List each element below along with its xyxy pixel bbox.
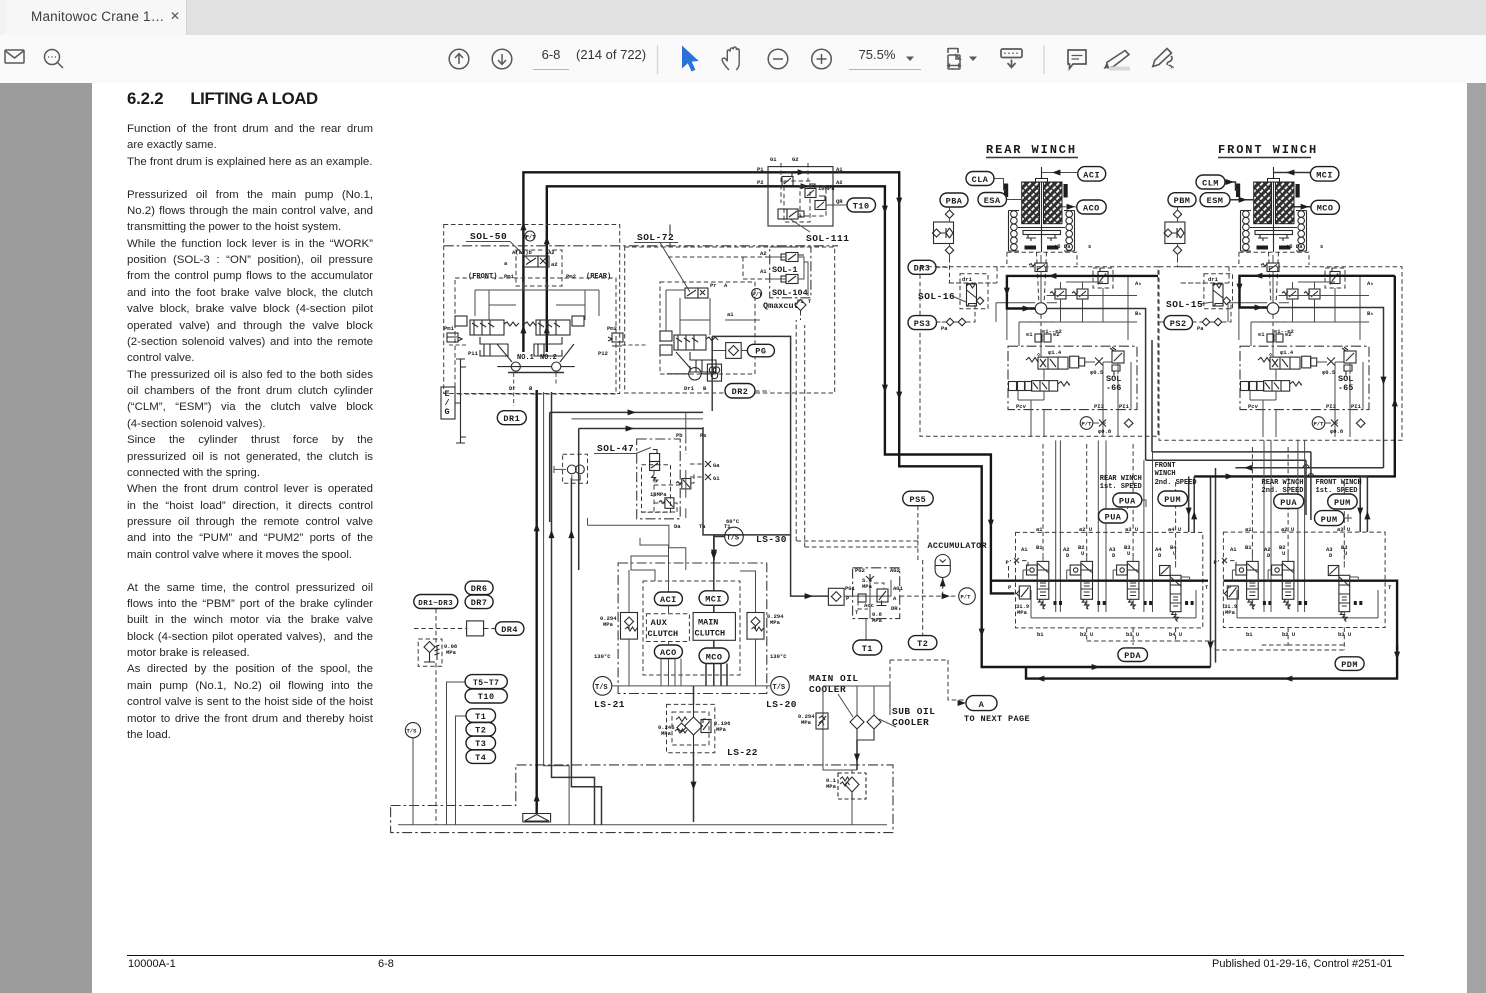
main cooler symbol xyxy=(850,715,864,770)
svg-text:A1: A1 xyxy=(1021,546,1028,553)
svg-text:PDM: PDM xyxy=(1341,660,1358,670)
node T2 xyxy=(908,636,937,650)
node PS3 xyxy=(908,316,937,330)
sub cooler symbol xyxy=(857,715,881,740)
wire clutch drain to LS-22 xyxy=(693,686,695,705)
svg-text:-66: -66 xyxy=(1106,383,1121,393)
main clutch box xyxy=(693,613,735,641)
svg-text:A(a3)b: A(a3)b xyxy=(512,249,533,256)
wire PUM risers bank2 xyxy=(1360,476,1367,532)
svg-text:DR7: DR7 xyxy=(471,598,488,608)
wire pump No.2 P2 line xyxy=(547,186,1015,593)
search/zoom icon xyxy=(45,50,64,69)
reducing valve block dash-dot xyxy=(853,568,900,619)
aux double pump xyxy=(554,465,585,480)
wire ESM arm front xyxy=(1230,199,1254,201)
svg-text:SOL-16: SOL-16 xyxy=(918,291,955,302)
svg-text:CLA: CLA xyxy=(972,175,989,185)
label SOL-16 with leader xyxy=(918,291,966,302)
wire feed from brake block xyxy=(791,565,829,596)
aux clutch box xyxy=(646,614,689,642)
svg-text:T1: T1 xyxy=(475,712,486,722)
wire hop crossings xyxy=(1306,452,1311,520)
wire pump internals xyxy=(475,282,599,320)
pump unit dashed box xyxy=(455,278,616,394)
svg-text:SOL-72: SOL-72 xyxy=(637,232,674,243)
cooler circuit box xyxy=(823,686,890,770)
wire to T1 xyxy=(865,619,867,640)
svg-text:G: G xyxy=(445,407,450,417)
filter LS-22 xyxy=(685,704,703,753)
aux double pump dashed box xyxy=(563,454,588,483)
relief valve SOL-47 a xyxy=(676,479,691,489)
svg-text:PS3: PS3 xyxy=(914,319,931,329)
svg-text:LS-30: LS-30 xyxy=(756,534,787,545)
bank1 dashed box xyxy=(1016,532,1203,628)
svg-text:MCO: MCO xyxy=(1317,204,1334,214)
select tool cursor xyxy=(682,46,699,72)
svg-text:A1: A1 xyxy=(836,166,843,173)
tank boundary (dash-dot) xyxy=(391,765,893,833)
svg-text:SUB OIL: SUB OIL xyxy=(892,706,935,717)
svg-text:ESA: ESA xyxy=(984,196,1001,206)
svg-text:PDA: PDA xyxy=(1124,651,1141,661)
node PDM xyxy=(1335,657,1364,671)
winch outer dashed box front xyxy=(1159,267,1402,441)
svg-text:P: P xyxy=(1228,584,1232,591)
svg-text:DR4: DR4 xyxy=(501,625,518,635)
wire ACO arm rear xyxy=(1062,206,1077,208)
wire PS5 dashed drop xyxy=(796,320,918,560)
wire pump No.1 P1 line (top run to SOL-111 A1 and down right) xyxy=(523,172,1210,667)
gauge P/T circle Qmaxcut xyxy=(752,289,763,299)
winch outer dashed box rear xyxy=(920,267,1158,437)
svg-text:a1: a1 xyxy=(727,311,734,318)
wire rear bus lower xyxy=(1146,452,1311,460)
wire feed to brake block lower xyxy=(579,429,703,571)
svg-text:dr1: dr1 xyxy=(962,276,973,283)
regulator valve SOL-72 xyxy=(660,331,718,355)
wire PBA drop dashed xyxy=(936,258,950,283)
SOL-50 dash-dot pilot line xyxy=(444,225,838,246)
SOL-50 label xyxy=(466,231,531,262)
wire PUA lower stub xyxy=(1128,500,1147,509)
svg-text:PUM: PUM xyxy=(1164,495,1181,505)
tank oil line xyxy=(398,824,887,826)
svg-text:PBA: PBA xyxy=(946,197,963,207)
svg-text:a2: a2 xyxy=(551,261,558,268)
email icon xyxy=(5,50,24,63)
wire right riser inner xyxy=(1235,467,1383,469)
valve section 5 (rear winch 2nd) xyxy=(1232,553,1271,609)
node ACO (rear) xyxy=(1077,200,1107,214)
toolbar separator 1 xyxy=(657,45,659,74)
svg-text:CLUTCH: CLUTCH xyxy=(648,629,679,639)
wire aux pump suction xyxy=(571,478,601,825)
svg-text:PUA: PUA xyxy=(1280,498,1297,508)
svg-text:Pa: Pa xyxy=(1197,325,1204,332)
gear pump symbol xyxy=(707,364,721,381)
svg-text:SOL-1: SOL-1 xyxy=(772,265,798,275)
svg-text:1st. SPEED: 1st. SPEED xyxy=(1100,483,1142,491)
svg-text:T/S: T/S xyxy=(773,684,786,692)
node MCO xyxy=(1311,200,1340,214)
relief valve clutch left 0.294MPa xyxy=(600,613,638,640)
node T1 xyxy=(853,640,882,655)
next page button xyxy=(492,49,512,69)
node PUM bank2 upper xyxy=(1328,494,1358,509)
svg-text:a1: a1 xyxy=(1245,526,1252,533)
svg-text:T1: T1 xyxy=(862,644,873,654)
svg-text:PBM: PBM xyxy=(1174,196,1191,206)
svg-text:(FRONT): (FRONT) xyxy=(468,273,497,281)
svg-text:Da: Da xyxy=(674,523,681,530)
remote control valve block (thick box) xyxy=(712,336,790,565)
svg-text:MCI: MCI xyxy=(705,595,722,605)
SOL-72 inner dashed box xyxy=(660,282,755,374)
svg-text:MPa: MPa xyxy=(446,649,457,656)
wire Qmaxcut internals xyxy=(770,257,808,296)
svg-text:Ta: Ta xyxy=(699,523,706,530)
svg-text:ACO: ACO xyxy=(1083,203,1100,213)
svg-text:10MPa: 10MPa xyxy=(818,185,835,192)
wire feed gray mid xyxy=(571,418,703,420)
solenoid SOL-16 xyxy=(960,274,988,309)
svg-text:D: D xyxy=(1066,552,1070,559)
svg-text:Pr: Pr xyxy=(710,282,717,289)
wire front feed thick xyxy=(1240,276,1395,308)
SOL-72 dashed box xyxy=(625,247,835,393)
wire CLM arm front xyxy=(1225,182,1238,190)
servo piston front xyxy=(480,337,508,356)
valve G2 xyxy=(805,184,816,198)
node T2 xyxy=(466,723,496,737)
junction box DR4 xyxy=(467,621,484,636)
svg-text:dr1: dr1 xyxy=(1208,276,1219,283)
node ESM xyxy=(1200,193,1230,207)
node PS5 xyxy=(903,491,934,506)
wire T return bottom xyxy=(1026,645,1397,679)
valve G1 xyxy=(782,172,793,186)
page xyxy=(0,83,92,993)
svg-text:DR3: DR3 xyxy=(914,264,931,274)
solenoid valve SOL-72 xyxy=(685,282,728,298)
clutch block dash-dot box xyxy=(618,563,767,694)
svg-text:PS2: PS2 xyxy=(1170,319,1187,329)
svg-text:a1: a1 xyxy=(1036,526,1043,533)
svg-text:A1: A1 xyxy=(760,268,767,275)
valve section 6 xyxy=(1268,553,1307,609)
filter square xyxy=(828,588,844,605)
motor assembly rear xyxy=(1004,167,1075,301)
wire ACI arm rear xyxy=(1042,172,1078,174)
LS-22 dashed box xyxy=(667,704,715,752)
servo piston SOL-72 xyxy=(690,352,716,372)
comment icon xyxy=(1068,50,1086,69)
servo piston rear xyxy=(534,337,562,356)
inner dashed box rear top xyxy=(920,283,997,322)
svg-text:Pm2: Pm2 xyxy=(607,325,617,332)
node PBA xyxy=(940,193,968,207)
wire work lines bank2 xyxy=(1264,440,1305,612)
svg-text:B1: B1 xyxy=(1036,544,1043,551)
svg-text:PUM: PUM xyxy=(1321,515,1338,525)
svg-text:T/S: T/S xyxy=(595,684,608,692)
footer xyxy=(127,955,1404,956)
svg-text:A: A xyxy=(893,595,897,602)
svg-text:B: B xyxy=(703,385,707,392)
svg-text:SOL-15: SOL-15 xyxy=(1166,299,1203,310)
node DR1 xyxy=(497,411,526,425)
check valve 0.08MPa xyxy=(418,639,458,666)
SOL-111 box xyxy=(768,167,833,226)
svg-text:a2 U: a2 U xyxy=(1281,526,1294,533)
SOL-47 inner dashed box xyxy=(642,465,671,513)
filter PG xyxy=(721,343,747,359)
wire accumulator stem xyxy=(942,578,944,588)
suction strainer xyxy=(523,814,551,823)
svg-text:ESM: ESM xyxy=(1207,196,1224,206)
fit dropdown caret xyxy=(969,57,977,62)
node T1 xyxy=(466,709,496,723)
svg-text:Ps: Ps xyxy=(700,432,707,439)
port Pa diamonds front xyxy=(1192,303,1231,332)
fill and sign icon xyxy=(1153,49,1173,69)
highlighter icon xyxy=(1104,51,1131,71)
svg-text:REAR WINCH: REAR WINCH xyxy=(986,143,1077,157)
svg-text:B1: B1 xyxy=(1245,544,1252,551)
orifice Ga xyxy=(690,461,720,469)
node T4 xyxy=(466,750,496,764)
svg-text:Pa: Pa xyxy=(941,325,948,332)
thermo sensor T/S LS-21 xyxy=(593,653,612,695)
svg-text:DR2: DR2 xyxy=(732,387,749,397)
wire SOL-47 through lines xyxy=(685,470,687,518)
wire bank1 bottom bus xyxy=(1031,590,1196,618)
wire DR drain dashed xyxy=(414,602,495,825)
svg-text:T: T xyxy=(1388,584,1392,591)
svg-text:T/S: T/S xyxy=(407,728,418,735)
svg-text:REAR WINCH: REAR WINCH xyxy=(1262,479,1304,487)
zoom in button xyxy=(812,49,832,69)
bank2 dashed box xyxy=(1223,532,1385,627)
svg-text:T5~T7: T5~T7 xyxy=(473,679,500,688)
svg-text:MPa: MPa xyxy=(862,583,873,590)
svg-text:CLM: CLM xyxy=(1202,179,1219,189)
wire riser x685 xyxy=(685,412,687,439)
thermo sensor T/S LS-30 xyxy=(725,518,744,546)
svg-text:P’: P’ xyxy=(1006,559,1013,566)
node PUA bank1 upper xyxy=(1113,493,1142,507)
wire T-ovals drain runs xyxy=(447,682,467,825)
svg-text:D: D xyxy=(1267,552,1271,559)
svg-text:Ga: Ga xyxy=(713,462,720,469)
svg-text:13MPa: 13MPa xyxy=(650,491,667,498)
node DR6 xyxy=(465,581,493,595)
wire sub cooler feed xyxy=(890,660,966,715)
svg-text:SOL-47: SOL-47 xyxy=(597,443,634,454)
svg-text:DR1: DR1 xyxy=(503,414,520,424)
wire bank1 P line xyxy=(991,580,1208,582)
svg-text:MCO: MCO xyxy=(706,653,723,663)
regulator valve front xyxy=(447,316,519,342)
svg-text:(REAR): (REAR) xyxy=(586,273,611,281)
clutch block inner dashed box xyxy=(643,581,740,675)
svg-text:MPa: MPa xyxy=(716,726,727,733)
svg-text:U: U xyxy=(1127,550,1130,557)
svg-text:T3: T3 xyxy=(475,739,486,749)
svg-text:b1: b1 xyxy=(1037,631,1044,638)
cooler bypass valve xyxy=(798,713,828,729)
svg-text:NO.1: NO.1 xyxy=(517,354,534,362)
svg-text:LS-22: LS-22 xyxy=(727,747,758,758)
svg-text:-65: -65 xyxy=(1338,383,1353,393)
toolbar xyxy=(0,35,1486,84)
svg-text:P/T: P/T xyxy=(961,594,972,601)
wire section pilot dashed centerlines xyxy=(1043,444,1344,560)
svg-text:Pm1: Pm1 xyxy=(444,325,455,332)
svg-text:PUA: PUA xyxy=(1119,496,1136,506)
svg-text:TO NEXT PAGE: TO NEXT PAGE xyxy=(964,714,1030,724)
wire A port dashed to accumulator xyxy=(900,560,958,636)
LS-22 inner dashed box xyxy=(672,712,709,745)
svg-text:MAIN OIL: MAIN OIL xyxy=(809,673,859,684)
pump SOL-72 xyxy=(667,352,711,380)
SOL-47 dash-dot box xyxy=(637,439,681,519)
brake check valve front xyxy=(1164,207,1185,258)
SOL-72 label xyxy=(634,232,690,292)
solenoid SOL-111 xyxy=(778,209,804,219)
regulator valve rear xyxy=(524,316,623,346)
valve assembly front xyxy=(1178,243,1374,437)
svg-text:U: U xyxy=(1344,550,1347,557)
thermo sensor T/S left xyxy=(405,723,420,738)
svg-text:REAR WINCH: REAR WINCH xyxy=(1100,475,1142,483)
svg-text:U: U xyxy=(1081,550,1084,557)
node PUA bank1 lower xyxy=(1099,509,1128,523)
svg-text:b2 U: b2 U xyxy=(1282,631,1295,638)
wire ACI feed xyxy=(631,538,669,592)
node ACI xyxy=(654,592,682,606)
svg-text:ACO: ACO xyxy=(660,648,677,658)
svg-text:P’: P’ xyxy=(1214,559,1221,566)
svg-text:D: D xyxy=(1329,552,1333,559)
svg-text:ACCUMULATOR: ACCUMULATOR xyxy=(928,541,988,551)
svg-text:PS5: PS5 xyxy=(909,495,926,505)
node DR4 xyxy=(495,622,524,636)
svg-text:Pm2: Pm2 xyxy=(566,273,576,280)
zoom out button xyxy=(768,49,788,69)
svg-text:ACI: ACI xyxy=(1083,170,1100,180)
svg-text:Pm1: Pm1 xyxy=(504,273,515,280)
svg-text:T4: T4 xyxy=(475,753,486,763)
svg-text:MPa: MPa xyxy=(603,621,614,628)
wire PDA dashed collectors xyxy=(1087,628,1215,650)
wire bank2 bottom bus xyxy=(1237,590,1378,618)
svg-text:T: T xyxy=(808,298,812,305)
wire clutch verticals xyxy=(661,606,681,686)
solenoid SOL-104 xyxy=(781,275,798,284)
svg-text:DR1~DR3: DR1~DR3 xyxy=(418,600,453,608)
brake valve block (thick box) xyxy=(703,427,791,535)
svg-text:A2: A2 xyxy=(548,249,555,256)
svg-text:P/T: P/T xyxy=(526,233,537,240)
wire ESA arm rear xyxy=(1007,199,1022,201)
svg-text:ACI: ACI xyxy=(660,595,677,605)
svg-text:a2 U: a2 U xyxy=(1079,526,1092,533)
wire LS sensor bus xyxy=(612,685,771,687)
scrolling mode icon xyxy=(1001,49,1022,68)
wire block bottom arrow xyxy=(713,535,715,560)
svg-text:T: T xyxy=(1205,584,1209,591)
node PUA bank2 xyxy=(1274,494,1304,509)
gauge P/T circle SOL-50 xyxy=(525,231,536,241)
relief valve bank1 inlet xyxy=(1016,586,1030,616)
gauge P/T circle accumulator xyxy=(959,588,976,605)
wire rear pump out xyxy=(1047,309,1152,461)
svg-text:SOL-104: SOL-104 xyxy=(772,288,808,298)
svg-text:PUM: PUM xyxy=(1334,498,1351,508)
wire bank1 T drop pair xyxy=(1211,468,1216,667)
node PUM bank2 lower xyxy=(1315,511,1345,526)
svg-text:A2: A2 xyxy=(836,179,843,186)
node PS2 xyxy=(1164,316,1193,330)
wire relief risers xyxy=(629,570,756,686)
valve assembly rear xyxy=(946,243,1142,437)
valve section 1 (rear winch 1st) xyxy=(1023,553,1062,609)
wire PG riser xyxy=(712,351,721,361)
svg-text:P: P xyxy=(1008,584,1012,591)
node MCO xyxy=(699,648,729,664)
node ACO xyxy=(654,645,682,659)
svg-text:D: D xyxy=(1112,552,1116,559)
hand tool xyxy=(722,47,739,70)
svg-text:MPa: MPa xyxy=(1017,609,1028,616)
svg-text:DR6: DR6 xyxy=(471,584,488,594)
svg-text:a3 U: a3 U xyxy=(1125,526,1138,533)
node DR2 xyxy=(725,384,755,399)
svg-text:SOL-111: SOL-111 xyxy=(806,233,849,244)
wire MCO arm front xyxy=(1294,206,1311,208)
SOL-50 outer dashed box xyxy=(444,225,620,394)
wire front pump out xyxy=(1279,308,1384,468)
svg-text:PG: PG xyxy=(755,347,766,357)
node CLM xyxy=(1196,175,1225,189)
svg-text:Dr1: Dr1 xyxy=(684,385,695,392)
wire MCI feed xyxy=(713,545,715,613)
svg-text:U: U xyxy=(1173,550,1176,557)
wire bank2 P line xyxy=(1223,581,1397,650)
svg-text:FRONT WINCH: FRONT WINCH xyxy=(1316,479,1362,487)
Qmaxcut dash-dot box xyxy=(770,247,811,298)
svg-text:LS-21: LS-21 xyxy=(594,699,625,710)
reducing valve internals xyxy=(844,567,904,624)
port Pa diamonds rear xyxy=(936,303,975,332)
svg-text:P1: P1 xyxy=(757,166,764,173)
svg-text:DR: DR xyxy=(891,605,898,612)
motor assembly front xyxy=(1236,167,1307,301)
node T10 (left column) xyxy=(465,689,507,703)
pump shaft line xyxy=(511,366,552,368)
wire LS-30 drop xyxy=(714,535,725,545)
valve section 4 (speed shift) xyxy=(1160,561,1194,622)
wire MCI arm front xyxy=(1274,172,1311,174)
node CLA xyxy=(966,172,994,186)
svg-text:T10: T10 xyxy=(853,202,870,212)
svg-text:Acc: Acc xyxy=(864,602,874,609)
svg-text:A2: A2 xyxy=(760,250,767,257)
wire feed to brake block upper xyxy=(550,411,703,413)
